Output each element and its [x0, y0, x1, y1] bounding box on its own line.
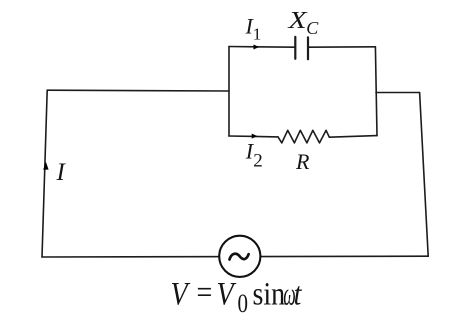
- wire right vertical: [420, 93, 429, 257]
- svg-text:C: C: [306, 18, 319, 38]
- svg-text:=: =: [197, 274, 213, 311]
- AC source V (circle): [219, 236, 260, 277]
- wire parallel-box right vertical: [375, 47, 377, 136]
- capacitor C (X_C) plates: [295, 37, 308, 59]
- resistor R zigzag: [278, 130, 329, 143]
- svg-text:0: 0: [238, 291, 249, 319]
- AC source tilde symbol: [230, 254, 249, 260]
- wire top branch right segment: [308, 46, 375, 48]
- svg-text:V: V: [217, 275, 237, 312]
- svg-text:R: R: [295, 149, 310, 174]
- svg-text:sin: sin: [253, 275, 286, 312]
- wire top-left horizontal: [47, 89, 229, 92]
- current arrow I2 on bottom branch: [252, 134, 258, 139]
- wire left vertical: [42, 90, 47, 257]
- svg-text:t: t: [294, 275, 303, 312]
- current arrow I on left wire: [43, 162, 48, 170]
- svg-text:I: I: [56, 159, 67, 186]
- label V = V0 sin wt: [171, 274, 303, 319]
- current arrow I1 on top branch: [254, 45, 260, 50]
- svg-text:X: X: [287, 8, 308, 34]
- wire mid-right horizontal: [376, 92, 420, 94]
- wire bottom branch left segment: [229, 135, 278, 138]
- wire parallel-box left vertical: [228, 47, 230, 137]
- wire bottom horizontal: [42, 255, 428, 258]
- svg-text:V: V: [171, 275, 191, 312]
- wire bottom branch right segment: [329, 136, 377, 138]
- svg-text:1: 1: [253, 25, 261, 44]
- svg-text:2: 2: [253, 151, 262, 172]
- wire top branch left segment: [229, 46, 295, 49]
